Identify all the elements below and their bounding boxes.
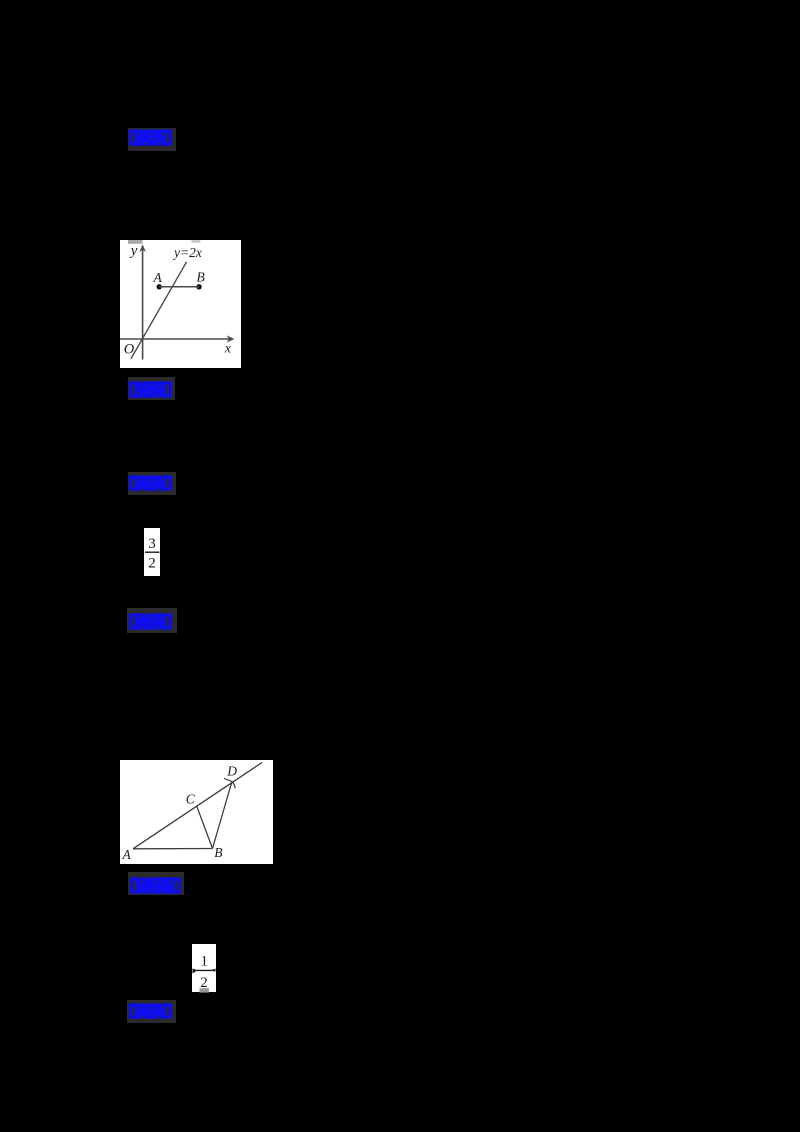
label [点睛] highlight 4 xyxy=(127,608,177,633)
svg-text:A: A xyxy=(121,847,131,862)
fraction 3/2 xyxy=(144,528,160,577)
label [解析] highlight 2 xyxy=(128,377,176,401)
figure 2: triangle ABD with C xyxy=(120,760,273,864)
point B xyxy=(196,284,201,289)
segment BD with arrow xyxy=(212,782,231,849)
fraction 1/2 xyxy=(192,944,216,992)
gray notch top-left xyxy=(128,240,143,244)
label [详解] highlight 3 xyxy=(128,472,176,495)
svg-text:x: x xyxy=(224,341,232,356)
svg-text:O: O xyxy=(124,341,135,357)
svg-text:y: y xyxy=(129,243,138,259)
label [详解] highlight 6 xyxy=(127,1000,176,1023)
figure 1: graph y=2x xyxy=(120,240,241,368)
segment CB xyxy=(196,806,212,848)
x-axis xyxy=(120,338,232,340)
y-axis xyxy=(142,247,144,359)
svg-text:B: B xyxy=(214,845,222,860)
svg-text:C: C xyxy=(185,791,195,806)
svg-text:3: 3 xyxy=(148,536,156,552)
line A-D extended xyxy=(133,763,262,849)
gray notch top-mid xyxy=(191,240,200,243)
segment AB xyxy=(133,848,213,850)
segment AB xyxy=(159,285,199,287)
label [答案] highlight 1 xyxy=(128,128,176,151)
svg-text:A: A xyxy=(153,270,163,285)
point A xyxy=(157,284,162,289)
svg-text:2: 2 xyxy=(148,555,156,571)
svg-text:B: B xyxy=(197,269,205,284)
svg-text:y=2x: y=2x xyxy=(172,244,202,259)
svg-text:D: D xyxy=(226,764,237,779)
svg-text:1: 1 xyxy=(200,954,208,970)
line y=2x xyxy=(131,261,187,358)
label [分析] highlight 5 xyxy=(128,872,184,895)
